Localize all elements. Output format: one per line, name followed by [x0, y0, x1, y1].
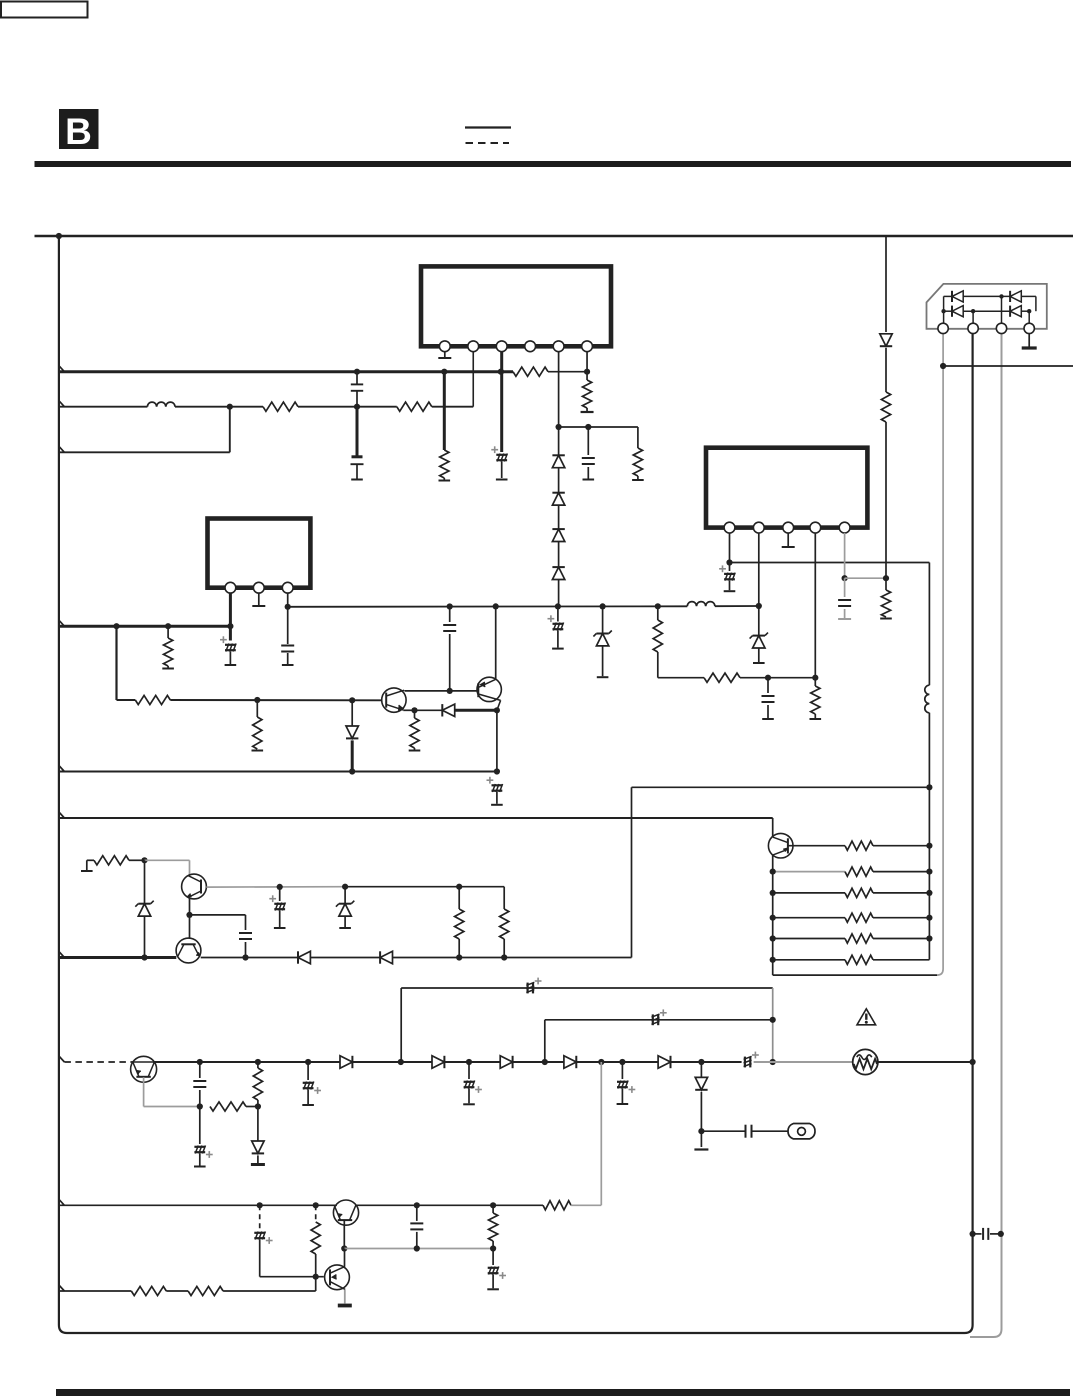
svg-text:B: B — [65, 111, 92, 152]
